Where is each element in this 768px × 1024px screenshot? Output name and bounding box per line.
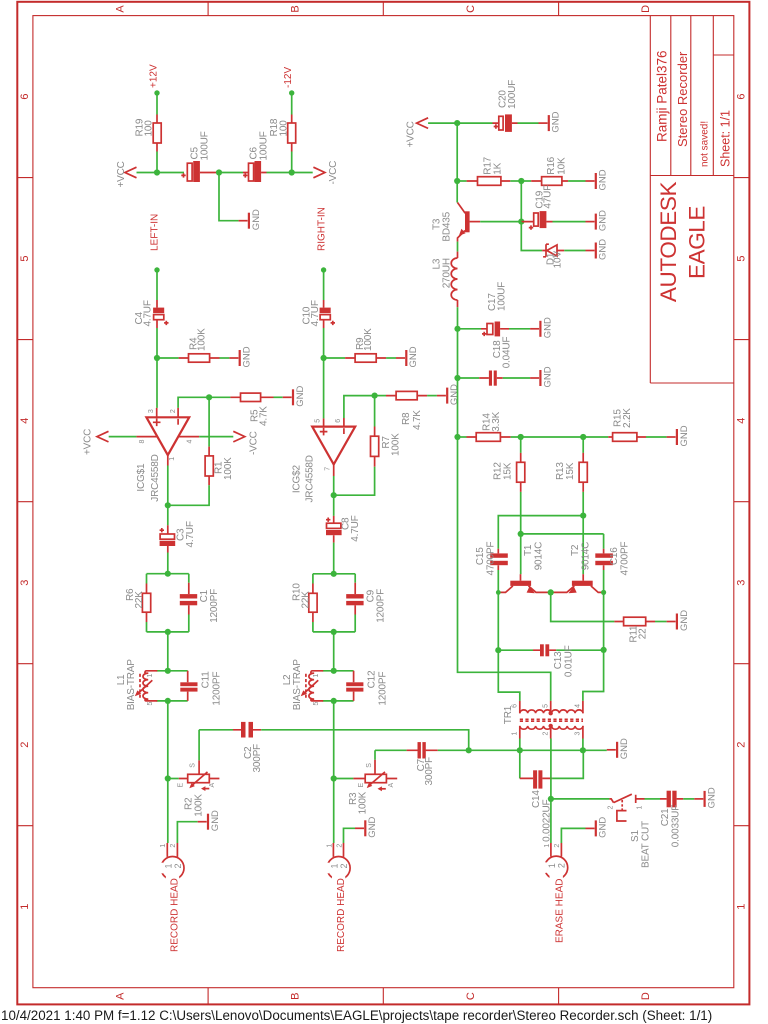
junction emitter common node: [548, 589, 554, 595]
svg-text:S: S: [366, 763, 373, 768]
inductor L3 270UH: [457, 242, 459, 252]
TR1 pin stubs bottom: [520, 726, 583, 739]
capacitor C19 47UF: [521, 221, 552, 223]
junction C13 right: [601, 647, 607, 653]
svg-text:0.04UF: 0.04UF: [502, 337, 513, 369]
pin 2 inverting input: [178, 397, 209, 408]
svg-text:1: 1: [547, 863, 557, 868]
resistor R16 10K: [521, 180, 531, 182]
capacitor C9 1200PF: [354, 583, 356, 615]
junction T2 collector / C16: [601, 590, 606, 595]
svg-text:1: 1: [512, 731, 519, 735]
ground GND (C17): [530, 317, 553, 338]
junction tank 1 bottom: [165, 629, 171, 635]
svg-text:3: 3: [19, 580, 31, 586]
record head 2 wiring: [333, 779, 335, 844]
wire R17 to base node: [510, 180, 521, 182]
svg-text:+VCC: +VCC: [405, 121, 416, 147]
wire C3 to tank 1: [167, 553, 169, 574]
svg-text:2: 2: [543, 731, 550, 735]
wire R7 to output node 2: [334, 467, 375, 495]
op-amp ICG$2 triangle: [312, 427, 355, 465]
svg-text:not saved!: not saved!: [700, 121, 711, 167]
svg-text:C11: C11: [200, 671, 211, 689]
svg-text:BD435: BD435: [441, 211, 452, 241]
wire +VCC node down to R17 node: [456, 123, 458, 181]
svg-text:1: 1: [160, 844, 167, 848]
capacitor C3 4.7UF: [167, 505, 169, 525]
svg-text:2: 2: [554, 844, 561, 848]
ground GND (R15): [667, 425, 690, 446]
wire TR1 pin 2 to switch line (crosses C7 and C14 lines): [550, 739, 552, 799]
pin 3 non-inverting input: [156, 408, 158, 417]
supply symbol -VCC top: [313, 167, 325, 178]
ground GND (R9): [396, 346, 419, 367]
svg-text:BIAS-TRAP: BIAS-TRAP: [126, 659, 137, 711]
junction tank 2 bottom: [331, 629, 337, 635]
junction R13/C15 coupling node: [580, 513, 586, 519]
TR1 secondary winding: [520, 726, 583, 729]
junction R12 top: [518, 434, 524, 440]
frame right strip dividers: [734, 178, 750, 826]
svg-text:R16: R16: [546, 156, 557, 174]
wire +VCC to C20: [428, 122, 492, 124]
svg-text:1200PF: 1200PF: [211, 672, 222, 706]
wire TR1 pin 3 to oscillator line: [582, 739, 584, 750]
connector ERASE HEAD: [545, 856, 568, 879]
ground GND (C18): [530, 366, 553, 387]
ground GND (erase head): [586, 817, 609, 838]
diode D1 zener 10V: [521, 222, 542, 251]
svg-text:1200PF: 1200PF: [209, 589, 220, 623]
wire main feed to TR1 pin 5: [458, 437, 551, 701]
junction inverting node: [206, 394, 212, 400]
wire C18 node to R14 node: [457, 378, 459, 437]
TR1 pin stubs top: [520, 701, 583, 711]
wire C16 to T2 collector line: [603, 570, 605, 650]
inductor L2 BIAS-TRAP: [311, 671, 323, 701]
transistor T1 9014C: [520, 574, 522, 581]
wire switch line: [551, 798, 610, 800]
junction C5/C6 midpoint: [216, 169, 222, 175]
svg-text:BEAT CUT: BEAT CUT: [640, 821, 651, 868]
svg-text:6: 6: [19, 94, 31, 100]
svg-text:1: 1: [147, 673, 154, 677]
junction C17 node: [454, 326, 460, 332]
junction R14 node: [454, 434, 460, 440]
svg-text:5: 5: [147, 701, 154, 705]
capacitor C7 300PF: [375, 749, 407, 751]
inductor L1 BIAS-TRAP: [145, 671, 157, 701]
capacitor C10 4.7UF: [323, 300, 325, 328]
junction T3 base node: [518, 219, 524, 225]
svg-text:2: 2: [336, 844, 343, 848]
svg-text:300PF: 300PF: [424, 757, 435, 786]
svg-text:22K: 22K: [134, 591, 145, 609]
svg-text:A: A: [209, 783, 216, 788]
resistor R11 22: [614, 621, 655, 623]
svg-text:100UF: 100UF: [259, 131, 270, 160]
svg-text:C21: C21: [660, 808, 671, 826]
wire R8 to ground: [427, 395, 437, 397]
resistor R19 100: [156, 115, 158, 152]
junction pin 3 / oscillator line: [580, 747, 586, 753]
svg-text:5: 5: [313, 701, 320, 705]
capacitor C1 1200PF: [188, 583, 190, 615]
svg-text:1: 1: [330, 863, 340, 868]
junction C18 node: [454, 375, 460, 381]
svg-text:100: 100: [278, 120, 289, 137]
resistor R9 100K: [324, 357, 346, 359]
resistor R1 100K feedback: [208, 397, 210, 446]
svg-text:22K: 22K: [300, 591, 311, 609]
svg-text:4.7K: 4.7K: [259, 406, 270, 426]
svg-text:S1: S1: [630, 830, 641, 842]
pin 6 inverting input: [344, 396, 375, 418]
svg-text:AUTODESK: AUTODESK: [656, 182, 681, 303]
wire R13 to T2 base (crosses coupling line): [582, 492, 584, 574]
svg-text:E: E: [358, 783, 365, 788]
junction R17 node: [454, 178, 460, 184]
ground GND (record head 1): [198, 810, 221, 831]
svg-text:C: C: [465, 5, 477, 13]
junction inverting node 2: [372, 393, 378, 399]
svg-text:C16: C16: [609, 547, 620, 565]
svg-text:22: 22: [638, 628, 649, 639]
svg-text:4.7UF: 4.7UF: [142, 300, 153, 326]
resistor R4 100K: [157, 357, 179, 359]
wire trap2 to pot node right (crosses C2 line): [333, 701, 335, 779]
svg-text:100UF: 100UF: [507, 80, 518, 109]
svg-text:RECORD HEAD: RECORD HEAD: [336, 878, 347, 952]
svg-text:10K: 10K: [557, 157, 568, 175]
resistor R12 15K: [520, 437, 522, 453]
TR1 core dashed lines: [520, 719, 583, 721]
svg-text:2.2K: 2.2K: [622, 408, 633, 428]
resistor R5 4.7K: [209, 396, 230, 398]
svg-text:100K: 100K: [358, 791, 369, 814]
pin 8 V+ supply: [136, 436, 157, 438]
svg-text:1200PF: 1200PF: [377, 672, 388, 706]
ground GND (R5): [283, 386, 306, 407]
pin 4 V- supply: [179, 436, 200, 438]
svg-text:E: E: [178, 783, 185, 788]
node +12V pin: [154, 90, 159, 95]
supply symbol +VCC (oscillator): [417, 118, 429, 129]
capacitor C21 0.0033UF: [645, 798, 661, 800]
wire trap 1 rails: [157, 671, 188, 701]
connector RECORD HEAD right channel: [327, 857, 350, 880]
junction trap 1 bottom: [165, 698, 171, 704]
svg-text:JRC4558D: JRC4558D: [150, 454, 161, 501]
frame bottom strip dividers: [208, 988, 558, 1005]
capacitor C18 0.04UF: [458, 377, 480, 379]
svg-text:8: 8: [139, 439, 146, 443]
wire tank 2 rails: [313, 574, 355, 632]
svg-text:D: D: [640, 992, 652, 1000]
svg-text:TR1: TR1: [503, 705, 514, 724]
svg-text:4: 4: [736, 418, 748, 424]
potentiometer R3 100K: [334, 778, 354, 780]
ground GND (record head 2): [355, 817, 378, 838]
wire C2 to oscillator line: [261, 730, 469, 751]
junction base node: [518, 178, 524, 184]
svg-text:C: C: [465, 992, 477, 1000]
wire tank1 to trap1: [167, 632, 169, 671]
svg-text:6: 6: [736, 94, 748, 100]
svg-text:100UF: 100UF: [200, 131, 211, 160]
resistor R15 2.2K: [608, 436, 646, 438]
junction trap 1 top: [165, 668, 171, 674]
svg-text:R8: R8: [401, 412, 412, 425]
wire RIGHT-IN to C10: [323, 270, 325, 300]
svg-text:2: 2: [19, 742, 31, 748]
svg-text:ICG$2: ICG$2: [292, 465, 303, 494]
svg-text:3: 3: [575, 731, 582, 735]
svg-text:10/4/2021 1:40 PM f=1.12 C:\: 10/4/2021 1:40 PM f=1.12 C:\Users\Lenovo…: [1, 1008, 712, 1023]
svg-text:4.7K: 4.7K: [412, 410, 423, 430]
svg-text:100K: 100K: [363, 328, 374, 351]
svg-text:Sheet: 1/1: Sheet: 1/1: [719, 110, 733, 167]
wire LEFT-IN to C4: [156, 270, 158, 300]
svg-text:10V: 10V: [553, 251, 564, 269]
svg-text:5: 5: [736, 256, 748, 262]
junction R12/C16 coupling node: [518, 531, 524, 537]
wire R12 to T1 base: [520, 492, 522, 574]
svg-text:3: 3: [736, 580, 748, 586]
resistor R13 15K: [582, 437, 584, 453]
svg-text:BIAS-TRAP: BIAS-TRAP: [292, 659, 303, 711]
svg-text:T1: T1: [523, 544, 534, 556]
junction output node: [165, 502, 171, 508]
junction node B (C10/R9/op-amp): [321, 355, 327, 361]
ground GND (R8): [437, 384, 460, 405]
svg-text:100UF: 100UF: [496, 282, 507, 311]
resistor R7 100K feedback: [374, 396, 376, 427]
capacitor C13 0.01UF: [498, 649, 533, 651]
ground GND (C20): [539, 111, 562, 132]
svg-text:0.0033UF: 0.0033UF: [670, 805, 681, 847]
svg-text:4700PF: 4700PF: [620, 542, 631, 576]
svg-text:15K: 15K: [503, 462, 514, 480]
pin 7 output: [333, 464, 335, 476]
svg-text:5: 5: [19, 256, 31, 262]
svg-text:47UF: 47UF: [543, 185, 554, 209]
capacitor C5 100UF: [187, 163, 192, 181]
svg-text:1200PF: 1200PF: [375, 589, 386, 623]
svg-text:A: A: [388, 783, 395, 788]
svg-text:100K: 100K: [223, 457, 234, 480]
svg-text:2: 2: [339, 863, 349, 868]
svg-text:A: A: [115, 5, 127, 13]
svg-text:JRC4558D: JRC4558D: [305, 455, 316, 502]
svg-text:B: B: [290, 5, 302, 12]
svg-text:0.01UF: 0.01UF: [564, 645, 575, 677]
svg-text:-VCC: -VCC: [249, 431, 260, 455]
capacitor C15 4700PF: [497, 549, 499, 570]
wire +VCC rail: [137, 172, 185, 174]
svg-text:7: 7: [324, 467, 331, 471]
wire output 2 down: [333, 476, 335, 495]
wire trap1 to pot node: [167, 701, 169, 779]
capacitor C8 4.7UF: [333, 495, 335, 516]
svg-text:2: 2: [557, 863, 567, 868]
svg-text:ERASE HEAD: ERASE HEAD: [555, 879, 566, 943]
svg-text:100K: 100K: [197, 328, 208, 351]
svg-text:4: 4: [186, 439, 193, 443]
junction node A (C4/R4/op-amp): [154, 355, 160, 361]
supply symbol +VCC top-left: [125, 167, 137, 178]
wire coupling node to C16: [521, 533, 604, 535]
resistor R10 22K: [312, 584, 314, 623]
junction switch node: [548, 796, 554, 802]
svg-text:5: 5: [543, 704, 550, 708]
wire R14 node line: [511, 436, 609, 438]
svg-text:9014C: 9014C: [580, 542, 591, 570]
wire output down: [167, 466, 169, 506]
svg-text:C14: C14: [531, 790, 542, 808]
svg-text:-12V: -12V: [283, 67, 294, 88]
transistor T3 BD435: [456, 181, 458, 203]
capacitor C11 1200PF: [187, 671, 189, 701]
ground GND (D1): [586, 239, 609, 260]
capacitor C16 4700PF: [603, 534, 605, 549]
wire oscillator supply line (C7 line): [438, 749, 607, 751]
wire coupling node to C15: [498, 516, 583, 549]
wire R9 to ground: [386, 357, 396, 359]
svg-text:C12: C12: [366, 670, 377, 688]
wire R15 to ground: [646, 436, 667, 438]
ground GND (C21): [694, 787, 717, 808]
svg-text:2: 2: [170, 409, 177, 413]
junction trap 2 top: [331, 668, 337, 674]
title block grid: [650, 16, 734, 383]
wire trap 2 rails: [322, 671, 353, 701]
resistor R6 22K: [146, 584, 148, 623]
wire C6 to -VCC rail: [267, 172, 313, 174]
svg-text:100K: 100K: [390, 433, 401, 456]
pin 1 output: [167, 455, 169, 465]
junction R13 top: [580, 434, 586, 440]
svg-text:4.7UF: 4.7UF: [185, 521, 196, 547]
ground GND (R16): [586, 169, 609, 190]
svg-text:D: D: [640, 5, 652, 13]
wire R16 to ground: [568, 180, 585, 182]
wire tank2 to trap2: [333, 632, 335, 671]
svg-text:5: 5: [314, 419, 321, 423]
node -12V pin: [289, 90, 294, 95]
junction -VCC rail / R18: [289, 169, 295, 175]
capacitor C12 1200PF: [353, 671, 355, 701]
ground GND (R4): [229, 346, 252, 367]
svg-text:+VCC: +VCC: [82, 429, 93, 455]
svg-text:-VCC: -VCC: [328, 161, 339, 185]
ground GND (supply mid): [239, 209, 262, 230]
svg-text:+12V: +12V: [149, 64, 160, 88]
junction tank 1 top: [165, 571, 171, 577]
svg-text:15K: 15K: [565, 462, 576, 480]
svg-text:ICG$1: ICG$1: [136, 463, 147, 492]
svg-text:1K: 1K: [492, 162, 503, 174]
capacitor C14 0.0022UF: [520, 777, 552, 779]
svg-text:3.3K: 3.3K: [491, 411, 502, 431]
switch S1 BEAT CUT: [609, 799, 613, 803]
erase head wiring: [550, 799, 552, 843]
op-amp ICG$1 triangle: [146, 417, 189, 455]
wire node A to op-amp pin 3: [156, 358, 158, 408]
junction pin 1 / oscillator line: [517, 747, 523, 753]
wire base node down: [520, 181, 522, 222]
junction C2 drop-in: [466, 747, 472, 753]
svg-text:S: S: [190, 763, 197, 768]
capacitor C2 300PF: [199, 729, 233, 731]
capacitor C4 4.7UF: [156, 300, 158, 328]
potentiometer R2 100K: [168, 778, 179, 780]
junction trap 2 bottom: [331, 698, 337, 704]
junction pot node left: [165, 775, 171, 781]
junction tank 2 top: [331, 571, 337, 577]
svg-text:A: A: [115, 992, 127, 1000]
svg-text:T2: T2: [570, 544, 581, 556]
record head 1 wiring: [167, 779, 169, 844]
svg-text:EAGLE: EAGLE: [685, 206, 710, 279]
svg-text:4.7UF: 4.7UF: [350, 515, 361, 541]
supply symbol +VCC (op-amp): [97, 431, 109, 442]
svg-text:4: 4: [19, 418, 31, 424]
svg-text:RECORD HEAD: RECORD HEAD: [170, 878, 181, 952]
resistor R8 4.7K: [375, 395, 386, 397]
svg-text:1: 1: [637, 805, 644, 809]
wire C10 to node B: [323, 328, 325, 358]
svg-text:4: 4: [575, 704, 582, 708]
capacitor C6 100UF: [219, 172, 243, 174]
junction pot node right: [331, 775, 337, 781]
wire C15 to T1 collector line: [497, 570, 499, 650]
svg-text:100: 100: [144, 120, 155, 137]
wire R5 to ground: [274, 396, 283, 398]
junction output node 2: [331, 492, 337, 498]
svg-text:B: B: [290, 993, 302, 1000]
supply symbol -VCC (op-amp): [233, 431, 245, 442]
svg-text:2: 2: [607, 805, 614, 809]
svg-text:2: 2: [736, 742, 748, 748]
svg-text:6: 6: [335, 419, 342, 423]
svg-text:Ramji Patel376: Ramji Patel376: [655, 50, 670, 142]
resistor R14 3.3K: [458, 436, 467, 438]
wire tank 1 rails: [147, 574, 189, 632]
wire TR1 pin 1 to oscillator line: [519, 739, 521, 779]
capacitor C17 100UF: [458, 328, 482, 330]
svg-text:100K: 100K: [193, 794, 204, 817]
wire R4 to ground: [220, 357, 230, 359]
svg-text:3: 3: [148, 409, 155, 413]
svg-text:9014C: 9014C: [534, 542, 545, 570]
resistor R17 1K: [457, 180, 466, 182]
svg-text:2: 2: [170, 844, 177, 848]
junction C13 left: [495, 647, 501, 653]
svg-text:RIGHT-IN: RIGHT-IN: [316, 207, 327, 251]
ground GND (R11): [667, 610, 690, 631]
svg-text:Stereo Recorder: Stereo Recorder: [675, 51, 690, 147]
junction +VCC node: [454, 120, 460, 126]
svg-text:1: 1: [163, 863, 173, 868]
TR1 primary winding: [520, 710, 583, 713]
svg-text:LEFT-IN: LEFT-IN: [150, 214, 161, 251]
svg-text:300PF: 300PF: [252, 744, 263, 773]
svg-text:1: 1: [326, 844, 333, 848]
svg-text:270UH: 270UH: [441, 258, 452, 288]
wire L3 to C17 node: [457, 307, 459, 329]
